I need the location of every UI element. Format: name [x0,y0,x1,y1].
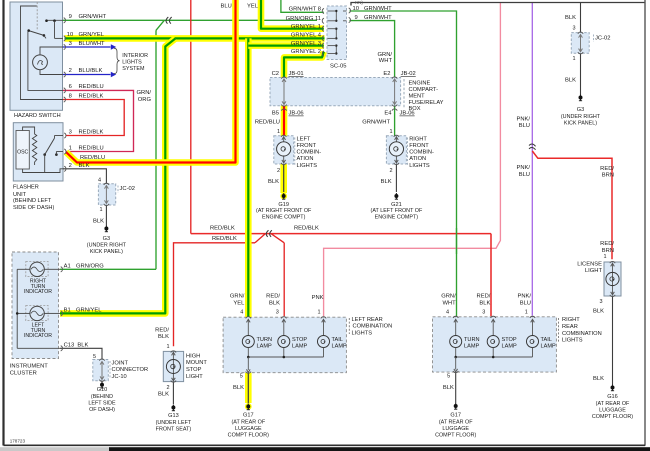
svg-text:E4: E4 [384,111,392,117]
svg-text:OF DASH): OF DASH) [89,407,115,413]
svg-text:GRN/WHT: GRN/WHT [79,14,107,20]
svg-text:3: 3 [482,310,485,316]
svg-text:(AT REAR OF: (AT REAR OF [596,401,630,407]
svg-text:3: 3 [276,310,279,316]
svg-text:G17: G17 [450,413,461,419]
svg-text:LEFT REAR: LEFT REAR [352,317,383,323]
svg-text:LUGGAGE: LUGGAGE [235,426,262,432]
svg-text:FRONT: FRONT [297,143,317,149]
svg-text:BLU/WHT: BLU/WHT [79,41,106,47]
svg-text:LIGHTS: LIGHTS [352,330,373,336]
svg-text:JC-02: JC-02 [120,186,135,192]
svg-text:BRN: BRN [602,173,614,179]
svg-text:(UNDER LEFT: (UNDER LEFT [156,420,192,426]
svg-text:BLK: BLK [158,334,169,340]
svg-text:GRN/: GRN/ [137,90,152,96]
svg-text:FRONT: FRONT [409,143,429,149]
svg-text:RED/: RED/ [600,166,614,172]
svg-text:ENGINE: ENGINE [409,80,431,86]
svg-text:GRN/WHT 8: GRN/WHT 8 [289,7,321,13]
svg-text:YEL: YEL [247,3,259,9]
svg-text:JC-02: JC-02 [595,36,610,42]
svg-text:CONNECTOR: CONNECTOR [112,367,149,373]
svg-text:BLK: BLK [565,15,576,21]
svg-text:4: 4 [240,310,243,316]
svg-text:GRN/WHT: GRN/WHT [362,119,390,125]
svg-text:(AT LEFT FRONT OF: (AT LEFT FRONT OF [371,208,423,214]
svg-text:LICENSE: LICENSE [577,261,602,267]
svg-text:STOP: STOP [292,337,307,343]
svg-text:BLK: BLK [565,77,576,83]
svg-text:RED/BLU: RED/BLU [79,146,104,152]
svg-text:GRN/: GRN/ [378,52,393,58]
svg-text:BLK: BLK [593,376,604,382]
svg-text:BLK: BLK [268,179,279,185]
svg-text:BLK: BLK [77,342,88,348]
svg-text:ENGINE COMPT): ENGINE COMPT) [375,215,419,221]
svg-text:ORG: ORG [138,97,152,103]
svg-text:UNIT: UNIT [13,192,27,198]
svg-text:JB-01: JB-01 [289,71,304,77]
svg-text:GRN/YEL: GRN/YEL [79,32,105,38]
svg-text:CLUSTER: CLUSTER [10,371,37,377]
svg-text:RED/BLK: RED/BLK [294,226,319,232]
svg-text:(BEHIND LEFT: (BEHIND LEFT [13,198,52,204]
svg-text:LAMP: LAMP [541,344,557,350]
svg-text:G19: G19 [278,202,289,208]
svg-text:RIGHT: RIGHT [562,317,580,323]
svg-text:LUGGAGE: LUGGAGE [442,426,469,432]
svg-text:A1: A1 [64,263,71,269]
svg-text:ENGINE COMPT): ENGINE COMPT) [262,215,306,221]
svg-text:RED/BLK: RED/BLK [212,236,237,242]
svg-text:PNK/: PNK/ [516,165,530,171]
svg-text:(AT REAR OF: (AT REAR OF [231,419,265,425]
svg-text:JOINT: JOINT [112,361,129,367]
svg-text:G10: G10 [97,387,108,393]
svg-text:LUGGAGE: LUGGAGE [599,407,626,413]
svg-text:KICK PANEL): KICK PANEL) [564,121,597,127]
svg-text:B1: B1 [64,307,71,313]
svg-text:G17: G17 [243,413,254,419]
svg-text:REAR: REAR [562,324,578,330]
svg-text:PNK/: PNK/ [517,294,531,300]
svg-text:GRN/YEL 1: GRN/YEL 1 [291,24,321,30]
svg-text:JB-02: JB-02 [401,71,416,77]
svg-text:MOUNT: MOUNT [186,360,207,366]
svg-text:COMPT FLOOR): COMPT FLOOR) [435,433,476,439]
svg-text:(AT RIGHT FRONT OF: (AT RIGHT FRONT OF [256,208,312,214]
svg-text:1: 1 [603,254,606,260]
svg-text:LEFT: LEFT [297,136,311,142]
svg-text:BLK: BLK [269,300,280,306]
svg-text:C13: C13 [64,342,75,348]
svg-text:SYSTEM: SYSTEM [122,66,145,72]
svg-text:2: 2 [390,168,393,174]
svg-text:FRONT SEAT): FRONT SEAT) [156,426,192,432]
svg-text:9: 9 [355,15,358,21]
svg-text:SIDE OF DASH): SIDE OF DASH) [13,205,54,211]
svg-text:COMPART-: COMPART- [409,87,439,93]
svg-text:WHT: WHT [442,300,456,306]
svg-text:BOX: BOX [409,106,421,112]
svg-text:JC-10: JC-10 [112,374,127,380]
svg-text:GRN/WHT: GRN/WHT [364,15,392,21]
svg-text:9: 9 [69,14,72,20]
svg-text:5: 5 [447,374,450,380]
svg-text:1: 1 [69,146,72,152]
svg-text:FLASHER: FLASHER [13,185,39,191]
svg-text:COMBINATION: COMBINATION [562,331,602,337]
svg-text:LAMP: LAMP [257,344,273,350]
svg-text:INDICATOR: INDICATOR [24,333,52,339]
svg-text:GRN/YEL 3: GRN/YEL 3 [291,41,321,47]
svg-text:10: 10 [353,6,359,12]
svg-text:BLU: BLU [519,172,530,178]
svg-text:BLU: BLU [519,123,530,129]
svg-text:G3: G3 [577,107,584,113]
svg-text:LIGHT: LIGHT [585,268,603,274]
svg-text:LIGHTS: LIGHTS [409,163,430,169]
svg-text:B5: B5 [272,111,279,117]
svg-text:TURN: TURN [464,337,480,343]
svg-text:1: 1 [100,207,103,213]
svg-text:COMPT FLOOR): COMPT FLOOR) [228,433,269,439]
svg-text:RED/BLU: RED/BLU [80,155,105,161]
svg-text:GRN/: GRN/ [441,294,456,300]
svg-text:HIGH: HIGH [186,353,200,359]
svg-text:GRN/YEL 4: GRN/YEL 4 [291,33,322,39]
svg-text:TAIL: TAIL [332,337,343,343]
svg-text:BLK: BLK [79,163,90,169]
svg-text:5: 5 [240,374,243,380]
svg-text:GRN/YEL 2: GRN/YEL 2 [291,49,321,55]
svg-text:LIGHTS: LIGHTS [122,60,142,66]
svg-text:3: 3 [599,299,602,305]
svg-text:G21: G21 [391,202,402,208]
svg-text:ATION: ATION [409,156,426,162]
svg-text:BLU/BLK: BLU/BLK [79,68,103,74]
svg-text:LAMP: LAMP [502,344,518,350]
svg-text:1: 1 [317,310,320,316]
svg-text:1: 1 [572,56,575,62]
svg-text:INTERIOR: INTERIOR [122,53,148,59]
svg-text:4: 4 [98,178,101,184]
svg-text:GRN/YEL: GRN/YEL [76,307,102,313]
svg-text:PNK: PNK [312,295,324,301]
svg-text:RED/: RED/ [600,241,614,247]
svg-text:10: 10 [67,32,73,38]
svg-text:INSTRUMENT: INSTRUMENT [10,363,48,369]
svg-text:1: 1 [277,129,280,135]
svg-text:5: 5 [93,354,96,360]
svg-text:RED/BLK: RED/BLK [79,93,104,99]
svg-text:1: 1 [525,310,528,316]
svg-text:LIGHT: LIGHT [186,374,203,380]
svg-text:2: 2 [167,385,170,391]
svg-text:GRN/WHT: GRN/WHT [364,6,392,12]
svg-text:WHT: WHT [379,58,393,64]
svg-text:(BEHIND: (BEHIND [91,394,113,400]
svg-text:BLK: BLK [158,392,169,398]
svg-text:2: 2 [277,168,280,174]
svg-text:BLU: BLU [221,3,232,9]
svg-text:3: 3 [69,41,72,47]
svg-text:STOP: STOP [502,337,517,343]
svg-text:(UNDER RIGHT: (UNDER RIGHT [561,114,601,120]
svg-text:JB-06: JB-06 [289,111,304,117]
svg-text:2: 2 [69,68,72,74]
svg-text:BRN: BRN [602,248,614,254]
svg-text:HAZARD SWITCH: HAZARD SWITCH [14,113,61,119]
svg-text:RED/: RED/ [155,327,169,333]
svg-text:RED/: RED/ [477,294,491,300]
svg-text:KICK PANEL): KICK PANEL) [90,249,123,255]
svg-text:COMBIN-: COMBIN- [409,150,434,156]
svg-text:G16: G16 [607,394,618,400]
svg-text:BLK: BLK [233,385,244,391]
svg-text:RED/: RED/ [266,294,280,300]
svg-text:3: 3 [69,130,72,136]
svg-text:PNK/: PNK/ [516,116,530,122]
svg-text:G13: G13 [168,413,179,419]
svg-text:1: 1 [390,129,393,135]
svg-text:YEL: YEL [233,300,245,306]
svg-text:SC-05: SC-05 [330,63,346,69]
svg-text:4: 4 [446,310,449,316]
svg-text:1: 1 [167,344,170,350]
svg-text:178723: 178723 [10,439,26,444]
svg-text:GRN/ORG 11: GRN/ORG 11 [286,16,321,22]
svg-text:3: 3 [572,25,575,31]
svg-text:BLK: BLK [443,385,454,391]
svg-text:RED/BLU: RED/BLU [79,84,104,90]
svg-text:OSC: OSC [17,149,28,155]
svg-text:LAMP: LAMP [332,344,348,350]
svg-text:BLK: BLK [93,219,104,225]
svg-text:BLK: BLK [479,300,490,306]
svg-text:TURN: TURN [257,337,273,343]
svg-text:INDICATOR: INDICATOR [24,289,52,295]
svg-text:LEFT SIDE: LEFT SIDE [88,401,116,407]
svg-text:RED/BLK: RED/BLK [79,130,104,136]
svg-text:BLK: BLK [593,308,604,314]
svg-text:COMBINATION: COMBINATION [353,324,393,330]
svg-text:LAMP: LAMP [292,344,308,350]
svg-text:C2: C2 [272,71,279,77]
svg-text:TAIL: TAIL [541,337,552,343]
svg-text:G3: G3 [103,236,110,242]
svg-text:ATION: ATION [297,156,314,162]
svg-text:BLU: BLU [520,300,531,306]
svg-text:RED/BLK: RED/BLK [210,226,235,232]
svg-text:8: 8 [69,93,72,99]
svg-text:GRN/ORG: GRN/ORG [76,263,104,269]
svg-text:GRN/: GRN/ [230,294,245,300]
svg-text:RIGHT: RIGHT [409,136,427,142]
svg-text:LAMP: LAMP [464,344,480,350]
svg-text:RED/BLU: RED/BLU [255,119,280,125]
svg-text:E2: E2 [383,71,390,77]
svg-text:(AT REAR OF: (AT REAR OF [439,419,473,425]
svg-text:COMPT FLOOR): COMPT FLOOR) [592,414,633,420]
svg-text:LIGHTS: LIGHTS [297,163,318,169]
svg-text:LIGHTS: LIGHTS [562,338,583,344]
svg-text:(UNDER RIGHT: (UNDER RIGHT [87,243,127,249]
svg-text:COMBIN-: COMBIN- [297,150,322,156]
svg-text:MENT: MENT [409,94,426,100]
svg-text:2: 2 [69,163,72,169]
svg-text:STOP: STOP [186,367,202,373]
svg-text:6: 6 [69,84,72,90]
svg-text:KN): KN) [355,0,363,5]
svg-text:BLK: BLK [381,179,392,185]
